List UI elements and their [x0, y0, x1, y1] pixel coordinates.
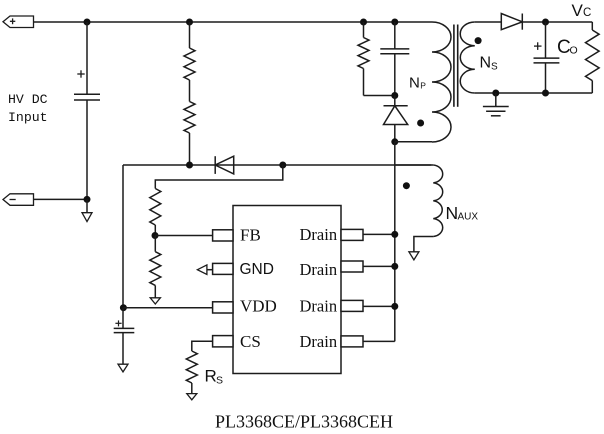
wire drain1: [363, 233, 395, 235]
ground FB divider (arrow): [154, 285, 156, 297]
wire CS: [192, 341, 213, 351]
svg-text:PL3368CE/PL3368CEH: PL3368CE/PL3368CEH: [215, 412, 393, 432]
wire between R1 R2: [189, 80, 191, 102]
connector J2 - (HV DC input negative): [3, 194, 34, 206]
wire aux bottom: [414, 237, 433, 252]
wire top rail: [34, 21, 433, 23]
capacitor C1 (clamp snubber): [394, 22, 396, 49]
resistor R2 (startup lower): [184, 102, 195, 134]
diode D2 (output rectifier): [501, 14, 522, 30]
svg-text:FB: FB: [240, 226, 261, 245]
transformer core: [453, 25, 455, 107]
node drain2: [391, 263, 398, 270]
node FB: [152, 232, 159, 239]
diode D1 (clamp, pointing up): [394, 96, 396, 106]
pin Drain2 box: [341, 261, 363, 272]
diode D3 (VDD feed, pointing left): [214, 156, 216, 174]
op IC U1 PL3368 body: [233, 206, 341, 374]
dot phase NS: [475, 37, 482, 44]
wire output top: [522, 21, 592, 23]
svg-text:Drain: Drain: [300, 332, 338, 351]
svg-text:V: V: [572, 1, 584, 20]
pin Drain3 box: [341, 300, 363, 311]
svg-text:N: N: [480, 54, 492, 71]
node top-B: [186, 19, 193, 26]
capacitor C2 (VDD, polarized): [122, 308, 124, 329]
node neg: [84, 196, 91, 203]
svg-text:N: N: [446, 203, 459, 223]
wire secondary bottom: [475, 92, 593, 94]
dot phase NAUX: [403, 182, 410, 189]
pin Drain1 box: [341, 229, 363, 240]
wire drain2: [363, 265, 395, 267]
wire drain rail: [394, 142, 396, 342]
pin FB box: [213, 230, 233, 241]
wire drain3: [363, 305, 395, 307]
node mid-B: [279, 162, 286, 169]
connector J1 + (HV DC input positive): [3, 16, 34, 28]
resistor R6 (FB divider lower): [154, 236, 156, 252]
svg-text:CS: CS: [240, 332, 261, 351]
svg-text:VDD: VDD: [240, 297, 277, 316]
wire startup top: [189, 22, 191, 48]
node top-D: [391, 19, 398, 26]
winding NAUX (auxiliary): [433, 165, 442, 237]
ground RS (arrow): [191, 383, 193, 393]
pin Drain4 box: [341, 336, 363, 347]
svg-text:O: O: [570, 45, 578, 57]
node top-A: [84, 19, 91, 26]
svg-text:N: N: [409, 75, 420, 92]
wire left rail down: [122, 165, 124, 308]
wire snubber R bottom: [363, 69, 365, 96]
resistor R5 (FB divider upper): [150, 189, 161, 226]
wire mid rail: [123, 164, 431, 166]
svg-text:Input: Input: [8, 110, 48, 125]
node CO bottom: [542, 90, 549, 97]
resistor R1 (startup upper): [184, 48, 195, 80]
svg-text:AUX: AUX: [458, 212, 479, 223]
resistor R3 (clamp snubber): [358, 38, 369, 69]
wire neg input: [34, 198, 88, 200]
ground VDD cap (arrow): [118, 364, 128, 372]
node clamp top: [391, 92, 398, 99]
wire drain4: [363, 340, 395, 342]
wire secondary top: [475, 21, 502, 23]
svg-text:Drain: Drain: [300, 297, 338, 316]
svg-text:R: R: [205, 366, 217, 385]
pin CS box: [213, 336, 233, 347]
resistor RS (current sense): [186, 351, 197, 383]
svg-text:GND: GND: [240, 261, 274, 278]
wire FB: [155, 235, 213, 237]
svg-text:S: S: [491, 61, 498, 72]
dot phase NP: [417, 120, 424, 127]
svg-text:Drain: Drain: [300, 260, 338, 279]
node VDD: [120, 304, 127, 311]
winding NP (primary): [432, 22, 451, 142]
pin VDD box: [213, 302, 233, 313]
node primary bottom: [391, 138, 398, 145]
svg-text:HV DC: HV DC: [8, 92, 48, 107]
pin GND box: [213, 263, 233, 274]
node drain1: [391, 231, 398, 238]
wire VDD: [123, 307, 212, 309]
ground aux (arrow): [409, 252, 419, 260]
wire mid to FB divider: [155, 165, 282, 189]
node sec gnd: [492, 90, 499, 97]
ground input (arrow): [86, 199, 88, 212]
capacitor CO (output, polarized): [545, 22, 547, 58]
svg-text:Drain: Drain: [300, 225, 338, 244]
ground GND pin (left arrow): [207, 269, 213, 271]
svg-text:C: C: [583, 7, 591, 19]
wire snubber R top: [363, 22, 365, 38]
svg-text:S: S: [216, 375, 223, 387]
wire primary bottom: [395, 141, 432, 143]
resistor R4 (output load): [591, 22, 593, 30]
node top-C: [360, 19, 367, 26]
ground secondary (earth): [495, 93, 497, 107]
wire R5 to FB node: [154, 225, 156, 236]
capacitor Cin (input bulk, polarized): [86, 22, 88, 94]
node startup bottom: [186, 162, 193, 169]
svg-text:P: P: [420, 81, 426, 91]
wire startup bottom: [189, 133, 191, 165]
wire aux top: [395, 164, 434, 166]
winding NS (secondary): [460, 22, 475, 93]
node Vc: [542, 19, 549, 26]
node drain3: [391, 303, 398, 310]
